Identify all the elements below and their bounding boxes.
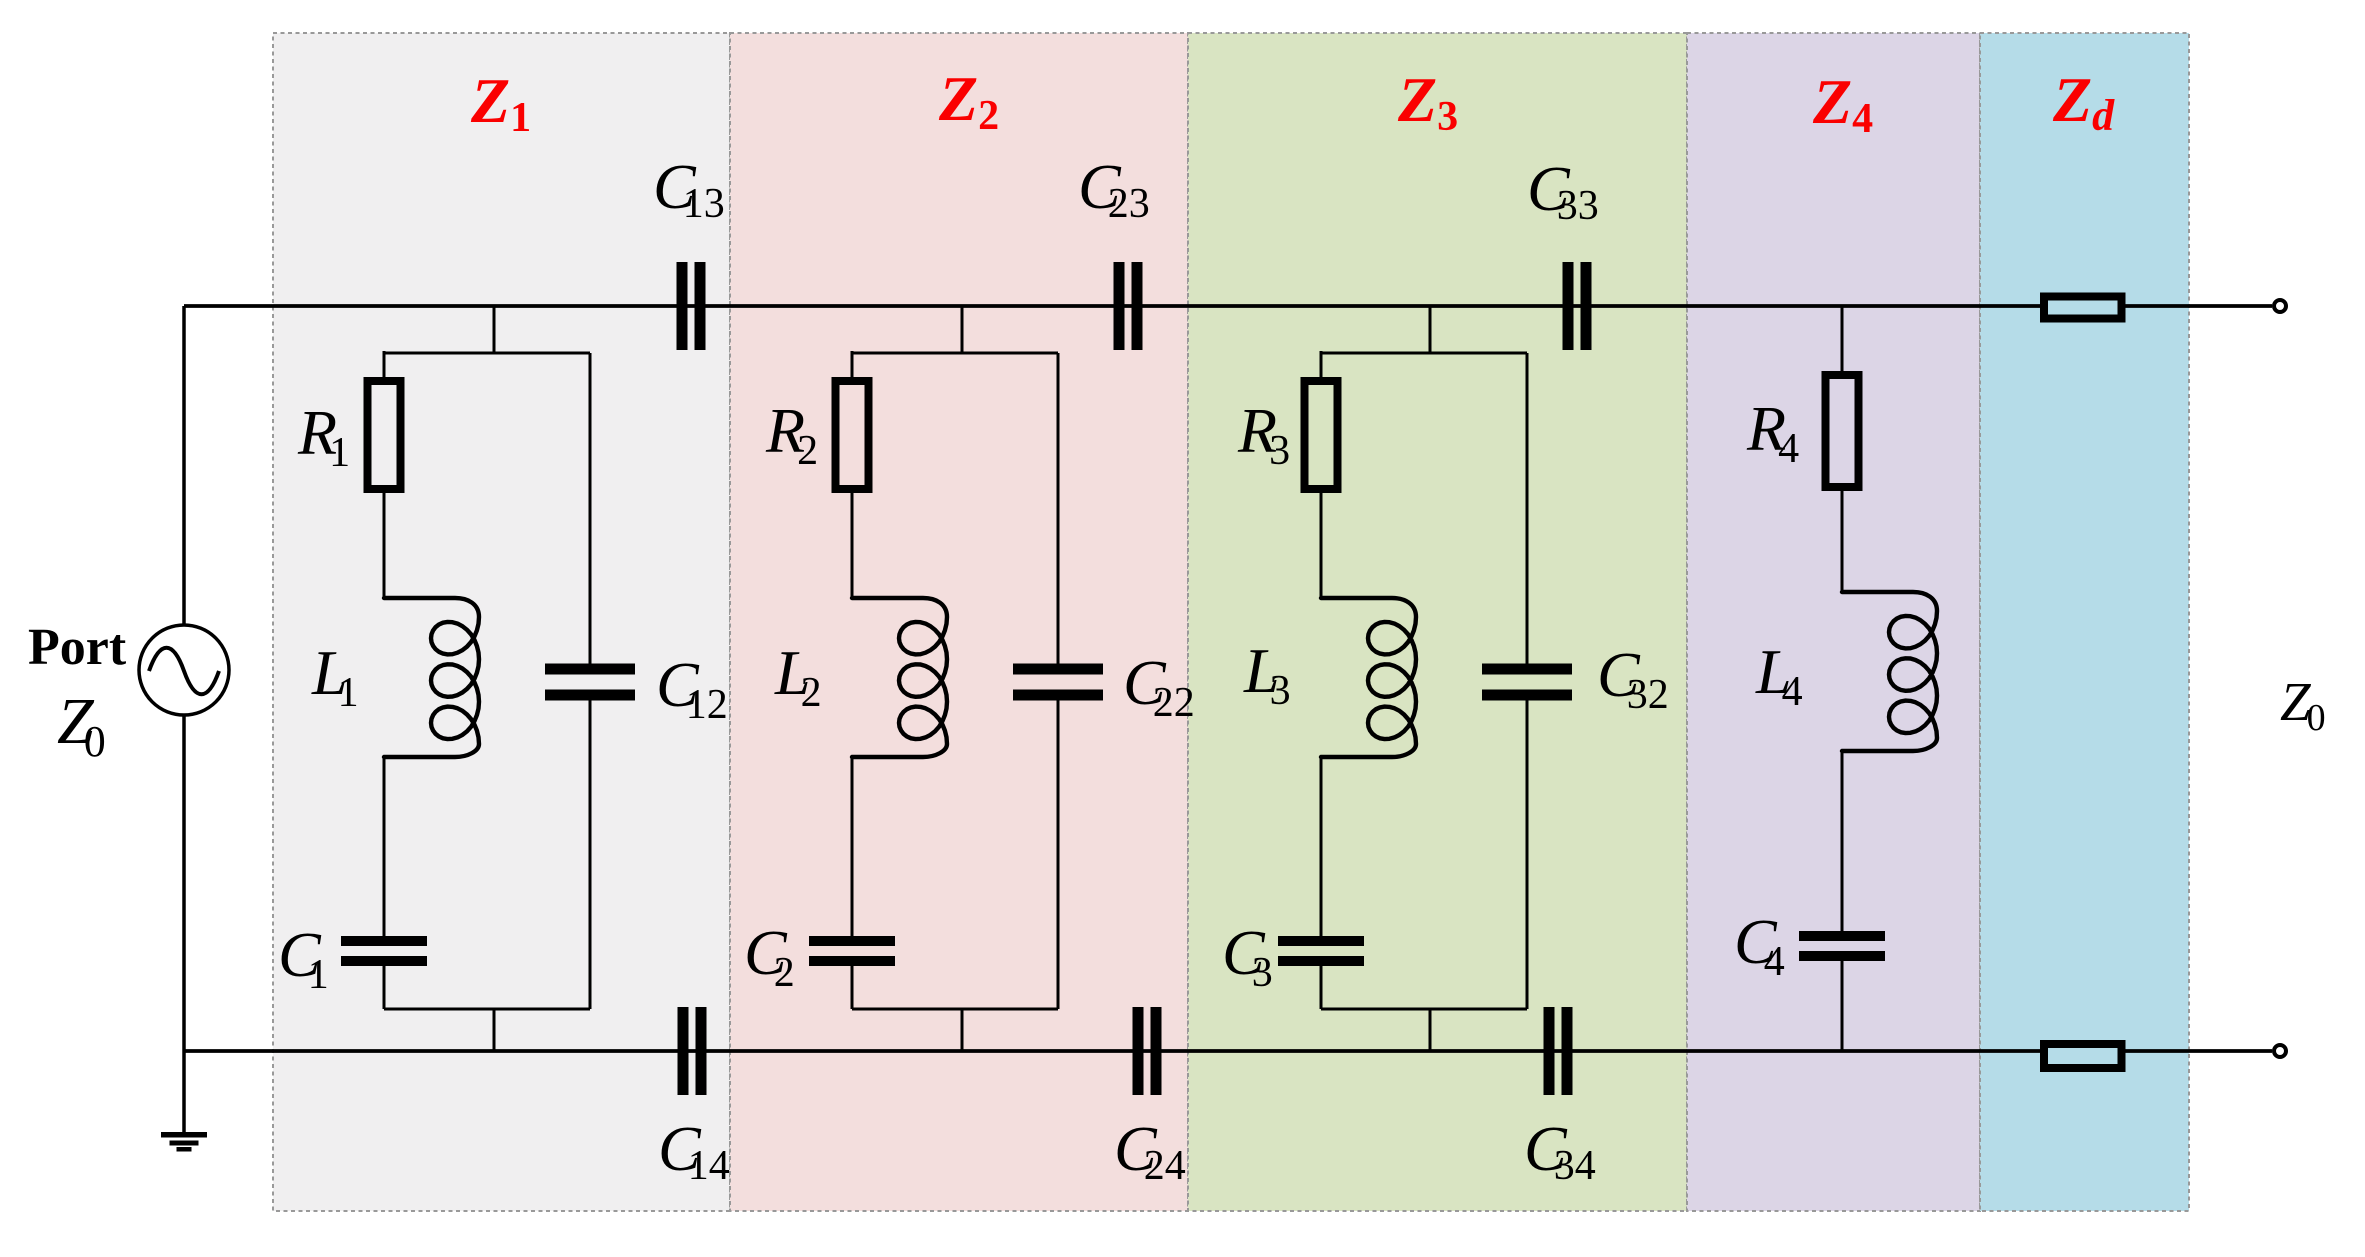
capacitor C33 (1563, 262, 1592, 350)
wire Z2 right upper (1057, 353, 1060, 665)
capacitor C12 (545, 664, 635, 701)
wire Z2 right lower (1057, 699, 1060, 1009)
wire Z1 right lower (589, 699, 592, 1009)
inductor L4 (1842, 592, 1937, 751)
capacitor C3 (1278, 936, 1364, 966)
resistor R4 (1826, 375, 1859, 487)
resistor Zd top (2044, 297, 2122, 319)
wire C4 down (1841, 961, 1844, 1051)
resistor R1 (368, 381, 401, 489)
resistor R2 (836, 381, 869, 489)
wire port left vertical (182, 306, 186, 1132)
wire Z4 upper (1841, 306, 1844, 375)
capacitor C24 (1133, 1007, 1162, 1095)
wire R1 to L1 (383, 489, 386, 598)
wire L4 to C4 (1841, 751, 1844, 931)
wire Z2 top split (852, 352, 1058, 355)
wire C2 down (851, 966, 854, 1009)
capacitor C34 (1544, 1007, 1573, 1095)
zone Z2 region (730, 33, 1188, 1211)
capacitor C13 (677, 262, 706, 350)
ground (161, 1132, 207, 1152)
wire Z3 left upper (1320, 351, 1323, 381)
node Z2 top junction (961, 306, 964, 353)
zone Z4 region (1687, 33, 1980, 1211)
terminal node bottom right (2274, 1045, 2286, 1057)
svg-text:Port: Port (28, 619, 127, 676)
svg-text:Z0: Z0 (2280, 671, 2326, 739)
wire Z3 right upper (1526, 353, 1529, 665)
wire Z2 left upper (851, 351, 854, 381)
node Z3 top junction (1429, 306, 1432, 353)
zone Z3 region (1188, 33, 1687, 1211)
zone Zd region (1980, 33, 2189, 1211)
inductor L1 (384, 598, 479, 757)
wire Z3 top split (1321, 352, 1527, 355)
resistor R3 (1305, 381, 1338, 489)
svg-text:Z0: Z0 (57, 685, 106, 766)
wire top rail (184, 304, 2272, 308)
wire L1 to C1 (383, 757, 386, 936)
capacitor C14 (678, 1007, 707, 1095)
inductor L3 (1321, 598, 1416, 757)
wire Z1 top split (384, 352, 590, 355)
AC source port (139, 625, 229, 715)
wire bottom rail (184, 1049, 2272, 1053)
wire Z1 left upper (383, 351, 386, 381)
wire L2 to C2 (851, 757, 854, 936)
inductor L2 (852, 598, 947, 757)
capacitor C4 (1799, 931, 1885, 961)
wire Z2 bottom merge (852, 1008, 1058, 1011)
wire Z3 bottom merge (1321, 1008, 1527, 1011)
wire L3 to C3 (1320, 757, 1323, 936)
wire C3 down (1320, 966, 1323, 1009)
wire R3 to L3 (1320, 489, 1323, 598)
capacitor C2 (809, 936, 895, 966)
capacitor C1 (341, 936, 427, 966)
zone Z1 region (273, 33, 730, 1211)
node Z3 bottom junction (1429, 1009, 1432, 1051)
terminal node top right (2274, 300, 2286, 312)
wire Z1 right upper (589, 353, 592, 665)
wire Z3 right lower (1526, 699, 1529, 1009)
node Z2 bottom junction (961, 1009, 964, 1051)
node Z1 top junction (493, 306, 496, 353)
capacitor C32 (1482, 664, 1572, 701)
node Z1 bottom junction (493, 1009, 496, 1051)
capacitor C22 (1013, 664, 1103, 701)
capacitor C23 (1114, 262, 1143, 350)
resistor Zd bottom (2044, 1044, 2122, 1068)
wire R2 to L2 (851, 489, 854, 598)
wire R4 to L4 (1841, 487, 1844, 592)
wire Z1 bottom merge (384, 1008, 590, 1011)
wire C1 down (383, 966, 386, 1009)
